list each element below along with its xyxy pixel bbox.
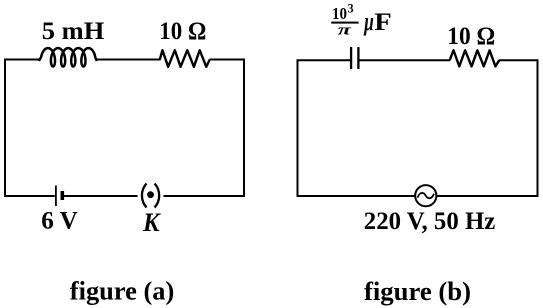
- battery cell 6 V: short negative plate: [60, 191, 64, 200]
- key K: plug dot: [147, 191, 154, 198]
- svg-text:5 mH: 5 mH: [42, 18, 105, 45]
- wire: figure (a) right side: [243, 59, 245, 198]
- wire: figure (b) bottom, left segment (corner to source): [297, 195, 416, 197]
- wire: figure (b) top, between capacitor and resistor: [360, 59, 451, 61]
- key K: right parenthesis arc: [155, 184, 160, 208]
- wire: figure (a) bottom, right segment (key to right corner): [164, 195, 246, 197]
- resistor R2 10 ohm (figure b): [450, 50, 500, 66]
- battery cell 6 V: long positive plate: [55, 186, 57, 207]
- wire: figure (b) right side: [537, 60, 539, 198]
- svg-text:π: π: [338, 23, 353, 39]
- wire: figure (a) bottom, middle segment (battery to key): [64, 195, 138, 197]
- key K: left parenthesis arc: [142, 184, 147, 208]
- wire: figure (b) top, left lead to capacitor: [297, 59, 351, 61]
- resistor R1 10 ohm (figure a): [160, 50, 210, 67]
- wire: figure (a) bottom, left segment (corner to battery): [4, 195, 55, 197]
- svg-text:K: K: [142, 208, 161, 237]
- svg-text:μ: μ: [363, 7, 374, 36]
- wire: figure (a) top, between inductor and resistor: [96, 59, 161, 61]
- AC source: sine tilde: [418, 193, 434, 198]
- svg-text:10 Ω: 10 Ω: [159, 18, 206, 45]
- svg-text:10: 10: [332, 4, 347, 23]
- svg-text:figure (a): figure (a): [70, 275, 175, 305]
- wire: figure (a) top, right lead from resistor: [209, 59, 245, 61]
- label: capacitor value fraction bar: [331, 22, 358, 24]
- svg-text:figure (b): figure (b): [364, 276, 471, 306]
- wire: figure (a) top, left lead to inductor: [4, 59, 41, 61]
- AC source: circle: [415, 185, 436, 206]
- svg-text:3: 3: [348, 1, 354, 16]
- wire: figure (b) bottom, right segment (source to corner): [437, 195, 539, 197]
- wire: figure (b) top, right lead from resistor: [499, 59, 539, 61]
- capacitor C1: right plate: [357, 47, 359, 69]
- wire: figure (a) left side: [4, 59, 6, 198]
- capacitor C1: left plate: [350, 47, 352, 69]
- svg-text:220 V, 50 Hz: 220 V, 50 Hz: [364, 208, 496, 235]
- inductor L1 5 mH: [39, 48, 96, 66]
- wire: figure (b) left side: [297, 60, 299, 198]
- svg-text:6 V: 6 V: [41, 208, 78, 235]
- svg-text:10 Ω: 10 Ω: [447, 23, 495, 50]
- svg-text:F: F: [374, 7, 392, 36]
